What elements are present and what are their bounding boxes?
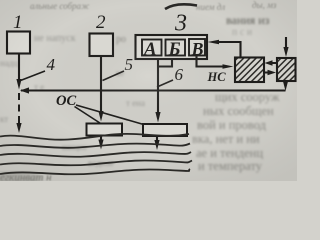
block 3 cell A [142, 40, 162, 56]
long feedback line [21, 89, 286, 91]
inflow wire into reservoir from top [285, 37, 287, 50]
dashed drop line [18, 93, 20, 124]
water wave 3 [0, 152, 191, 157]
bleed-through text right column [192, 13, 280, 173]
feedback wire pump to block 3 [213, 42, 241, 57]
vignette [0, 0, 297, 181]
wire from cell A down to right outlet box [157, 59, 159, 116]
arrowhead left [265, 60, 273, 66]
arrowhead down onto feedback line [283, 81, 288, 91]
leader line ОС to right outlet [76, 105, 154, 128]
arrow reservoir to pump (left) [270, 62, 276, 64]
arrowhead into water [154, 140, 159, 150]
arrow pump to reservoir (right) [264, 72, 269, 74]
scan grain texture [0, 0, 297, 181]
arrowhead into pump unit [223, 64, 234, 69]
water wave 2 [0, 144, 190, 148]
leader line for 5 [103, 71, 125, 81]
arrowhead right [268, 70, 277, 76]
right water outlet box [143, 124, 187, 136]
outflow wire from reservoir bottom [284, 81, 286, 84]
bleed-through text top band [30, 0, 277, 12]
wire from block 1 down [18, 54, 20, 85]
arrowhead into left water outlet box [98, 111, 103, 122]
water wave 1 [0, 134, 189, 140]
left water outlet box [87, 124, 123, 136]
arrowhead down into reservoir [283, 47, 288, 57]
wire from block 2 down [100, 56, 102, 115]
wire left outlet to water [100, 136, 102, 143]
arrowhead down to water [16, 123, 21, 133]
water wave 4 [0, 160, 192, 165]
block 1 [7, 32, 30, 54]
leader line for 6 [157, 80, 173, 87]
wire right outlet to water [156, 136, 158, 143]
leader line ОС to left outlet [75, 107, 104, 126]
bleed-through text scattered [0, 33, 145, 168]
arrowhead down onto feedback line (node) [16, 79, 21, 90]
block 3 cell V (В) [189, 39, 205, 56]
reservoir unit (hatched) [277, 58, 296, 81]
bottom-left smudge [0, 172, 42, 186]
arrowhead left at node [20, 87, 29, 93]
leader line for 4 [21, 71, 46, 81]
paper background [0, 0, 297, 181]
pump unit (hatched) [235, 58, 264, 83]
arrowhead into block 3 [208, 40, 220, 45]
block 2 [90, 34, 114, 57]
block 3 cell B (Б) [166, 40, 186, 56]
water wave 5 [0, 169, 190, 174]
arrowhead into water [98, 140, 103, 150]
block 3 outer frame [136, 35, 208, 59]
pen stroke above label 3 [165, 4, 197, 9]
arrowhead into right water outlet box [155, 112, 160, 123]
wire stub from cell B join [158, 59, 172, 67]
wire from cell V to pump unit [197, 57, 227, 67]
